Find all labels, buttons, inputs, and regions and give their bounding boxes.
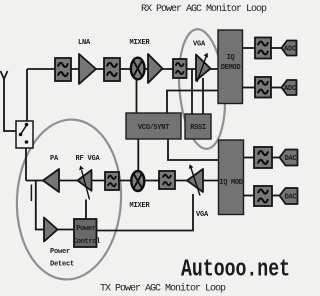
svg-text:RSSI: RSSI xyxy=(190,124,206,132)
wire filterD to DAC2 xyxy=(272,195,280,197)
filter F4 xyxy=(105,172,119,190)
wire VCO to mixer2 xyxy=(137,139,139,172)
wire RSSI tap from VGA xyxy=(202,78,204,114)
wire filterC to DAC1 xyxy=(272,157,280,159)
svg-text:RF VGA: RF VGA xyxy=(75,155,100,163)
svg-text:IQ MOD: IQ MOD xyxy=(219,179,243,187)
amplifier VGA TX xyxy=(187,164,203,195)
wire VCO to IQ MOD xyxy=(168,139,219,160)
svg-text:RX Power AGC Monitor Loop: RX Power AGC Monitor Loop xyxy=(141,3,267,15)
mixer M2 xyxy=(131,171,144,191)
svg-text:TX Power AGC Monitor Loop: TX Power AGC Monitor Loop xyxy=(100,283,226,295)
svg-text:VGA: VGA xyxy=(193,41,206,49)
filter FC xyxy=(254,147,272,168)
svg-text:Control: Control xyxy=(73,238,100,246)
DAC 2 xyxy=(280,188,298,204)
wire filterA to ADC1 xyxy=(271,47,282,49)
filter F5 xyxy=(159,171,175,189)
filter FA xyxy=(255,38,271,59)
svg-text:IQ: IQ xyxy=(227,54,235,62)
block RSSI xyxy=(185,114,211,139)
TX loop ellipse xyxy=(13,117,125,282)
amplifier LNA xyxy=(79,54,96,84)
RX loop ellipse xyxy=(174,27,229,150)
filter F3 xyxy=(173,59,187,78)
wire RX main xyxy=(27,68,218,70)
amplifier power detect xyxy=(44,218,58,242)
wire TX main xyxy=(26,180,219,182)
ADC 2 xyxy=(282,80,297,95)
svg-text:Autooo.net: Autooo.net xyxy=(181,257,290,284)
wire IQMOD to filterC xyxy=(244,157,255,159)
wire power control to RF VGA xyxy=(85,200,87,220)
svg-text:DAC: DAC xyxy=(285,155,297,163)
wire RSSI tap from filter output xyxy=(191,69,193,114)
filter FD xyxy=(254,186,272,206)
amplifier PA xyxy=(43,169,59,192)
DAC 1 xyxy=(280,150,298,166)
wire detect to power control xyxy=(58,229,75,231)
ADC 1 xyxy=(282,41,297,56)
mixer M1 xyxy=(131,58,145,80)
svg-text:LNA: LNA xyxy=(78,39,91,47)
wire mixer1 to VCO xyxy=(136,78,138,114)
wire IQMOD to filterD xyxy=(244,195,255,197)
filter FB xyxy=(255,77,271,98)
svg-text:ADC: ADC xyxy=(284,85,296,93)
filter F2 xyxy=(104,58,120,81)
switch S1 xyxy=(16,121,33,148)
svg-text:ADC: ADC xyxy=(284,45,296,53)
svg-text:Power: Power xyxy=(76,225,96,233)
svg-text:Power: Power xyxy=(50,248,70,256)
svg-text:DAC: DAC xyxy=(285,193,297,201)
svg-text:Detect: Detect xyxy=(50,261,74,269)
svg-text:VGA: VGA xyxy=(196,211,209,219)
label Power Detect xyxy=(50,248,74,269)
antenna xyxy=(1,71,17,131)
amplifier VGA RX xyxy=(196,53,211,82)
amplifier A2 xyxy=(148,54,163,83)
wire TX AGC loop xyxy=(97,194,194,231)
wire switch to TX xyxy=(25,148,27,181)
block power control xyxy=(73,219,100,247)
svg-text:PA: PA xyxy=(50,155,59,163)
wire IQDEMOD to filterB xyxy=(243,87,256,89)
wire filterB to ADC2 xyxy=(271,87,282,89)
svg-text:MIXER: MIXER xyxy=(129,39,150,47)
filter F1 xyxy=(55,58,71,81)
wire switch to RX xyxy=(26,69,28,121)
block IQ MOD xyxy=(219,140,244,215)
block IQ DEMOD xyxy=(218,30,243,104)
wire IQDEMOD to filterA xyxy=(243,47,256,49)
wire VCO to IQ DEMOD xyxy=(167,91,218,114)
coupler stub xyxy=(31,181,44,230)
svg-text:VCO/SYNT: VCO/SYNT xyxy=(138,124,169,132)
svg-text:DEMOD: DEMOD xyxy=(221,64,241,72)
block VCO/SYNT xyxy=(126,113,181,139)
amplifier RF VGA xyxy=(78,166,92,200)
svg-text:MIXER: MIXER xyxy=(129,202,150,210)
